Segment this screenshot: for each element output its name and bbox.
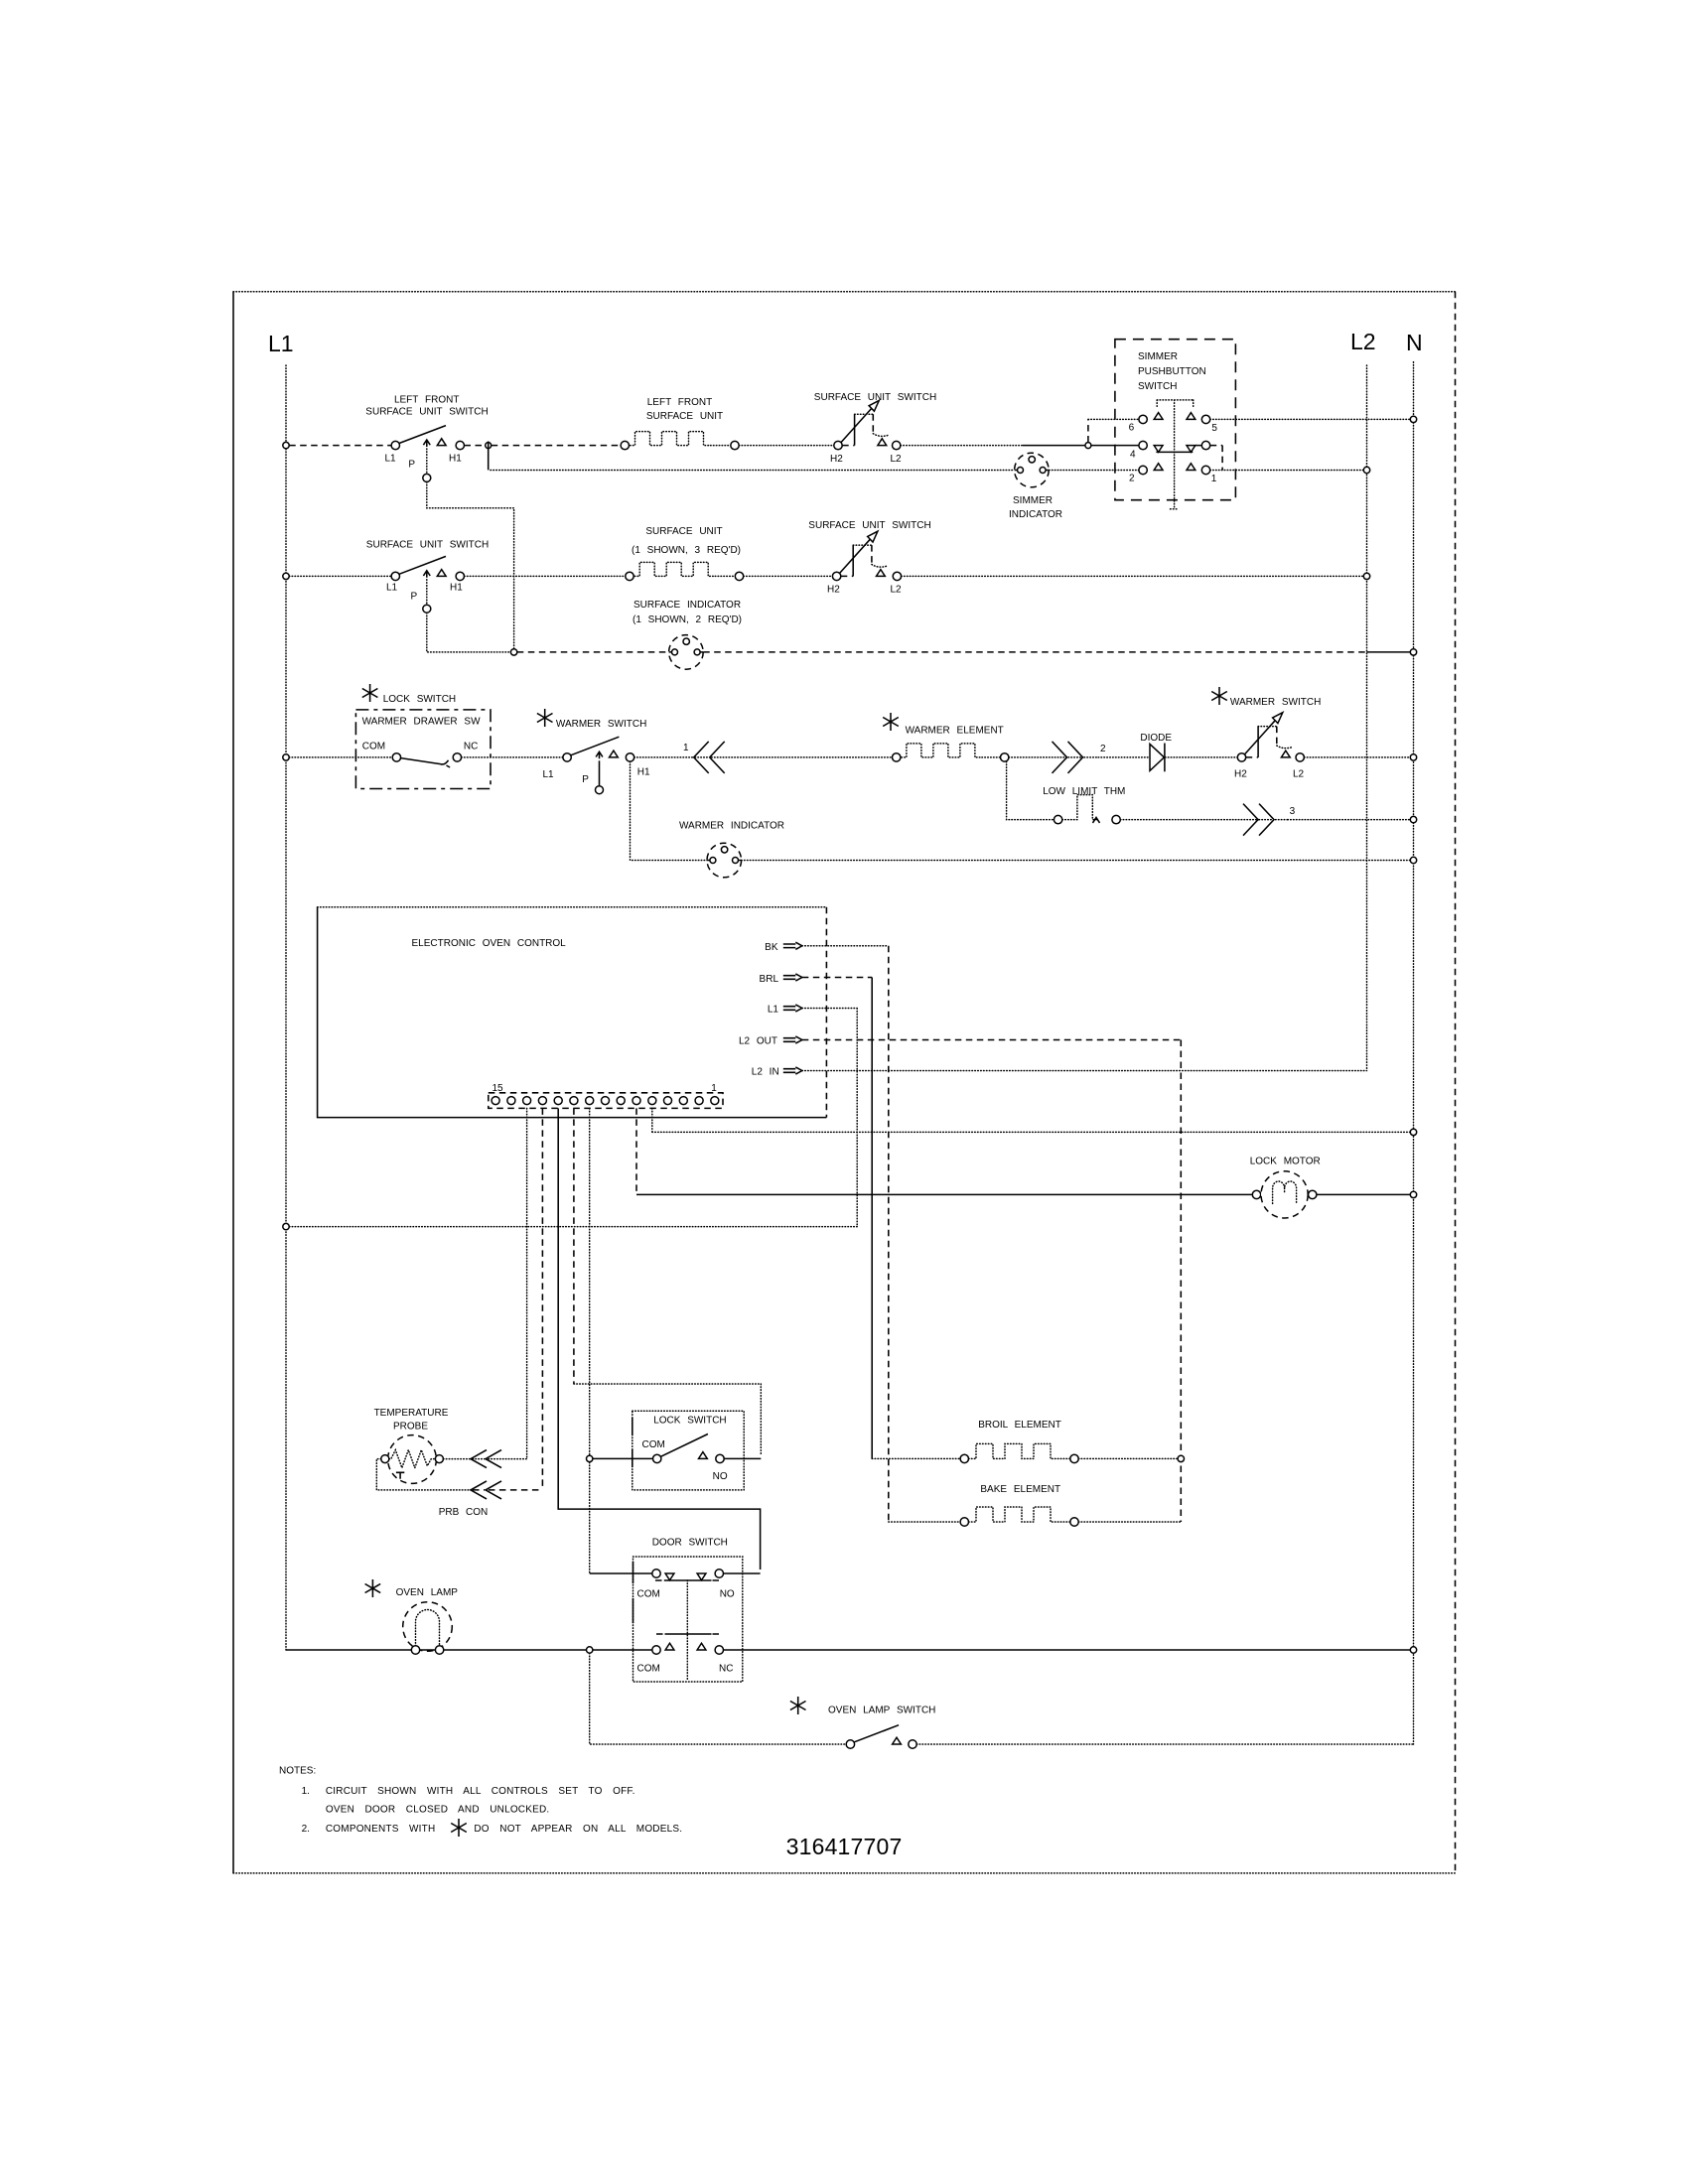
wire L2 to simmer pin 4	[901, 445, 1023, 447]
wire simmer indicator row (H1 junction to pin 2)	[491, 470, 1139, 472]
svg-text:L1: L1	[386, 583, 398, 594]
pin 1	[1187, 464, 1196, 471]
svg-text:1: 1	[683, 743, 689, 753]
svg-text:H2: H2	[1234, 769, 1247, 780]
wire H1 to element	[465, 575, 626, 577]
svg-text:WARMER SWITCH: WARMER SWITCH	[1230, 697, 1321, 708]
wire to chevron 3	[1120, 819, 1259, 821]
svg-text:BAKE ELEMENT: BAKE ELEMENT	[980, 1484, 1060, 1495]
svg-text:H1: H1	[450, 583, 463, 594]
svg-text:OVEN LAMP: OVEN LAMP	[396, 1587, 459, 1598]
svg-text:L2: L2	[891, 454, 903, 465]
svg-text:SURFACE UNIT: SURFACE UNIT	[646, 411, 723, 422]
junction to pin 6 branch	[1085, 443, 1091, 449]
svg-text:SURFACE INDICATOR: SURFACE INDICATOR	[633, 600, 741, 611]
switch simmer pushbutton switch box	[1115, 340, 1236, 500]
wire lamp to door switch	[420, 1649, 587, 1651]
svg-text:2: 2	[1129, 474, 1135, 484]
wire element to switch H2	[744, 575, 833, 577]
junction surface indicator row / N bus	[1410, 649, 1416, 655]
svg-text:L2 IN: L2 IN	[752, 1067, 779, 1078]
svg-text:LOW LIMIT THM: LOW LIMIT THM	[1043, 786, 1125, 797]
svg-text:BRL: BRL	[760, 974, 779, 985]
svg-text:3: 3	[1290, 806, 1296, 817]
wire probe to chevrons PRB CON	[443, 1458, 471, 1460]
wire L1 bus corner to oven lamp	[286, 1649, 411, 1651]
wire NC to warmer switch	[462, 756, 563, 758]
wire element to switch H2	[739, 445, 834, 447]
svg-text:SWITCH: SWITCH	[1138, 381, 1177, 392]
pushbutton plunger	[1157, 400, 1194, 509]
svg-text:NC: NC	[719, 1664, 733, 1675]
connector terminal strip (pins 15..1)	[489, 1093, 723, 1109]
svg-text:P: P	[582, 774, 589, 785]
svg-text:LOCK SWITCH: LOCK SWITCH	[653, 1416, 726, 1427]
svg-text:CIRCUIT SHOWN WITH ALL CONTROL: CIRCUIT SHOWN WITH ALL CONTROLS SET TO O…	[326, 1786, 635, 1797]
svg-text:1: 1	[1211, 474, 1217, 484]
svg-text:P: P	[411, 592, 418, 603]
wire L2 to N bus	[1304, 756, 1410, 758]
junction warmer indicator row / N bus	[1410, 857, 1416, 863]
pin 5	[1187, 413, 1196, 420]
wire pin12 to temperature probe return	[541, 1108, 543, 1490]
svg-text:TEMPERATURE: TEMPERATURE	[374, 1408, 449, 1419]
wire H1 to chevron connector 1	[634, 756, 694, 758]
wire motor to N bus	[1317, 1193, 1410, 1195]
svg-text:5: 5	[1211, 423, 1217, 434]
svg-text:WARMER ELEMENT: WARMER ELEMENT	[906, 726, 1004, 737]
svg-text:OVEN DOOR CLOSED AND UNLOCKED.: OVEN DOOR CLOSED AND UNLOCKED.	[326, 1805, 549, 1816]
svg-text:NO: NO	[720, 1589, 735, 1600]
svg-text:COMPONENTS WITH: COMPONENTS WITH	[326, 1824, 436, 1835]
wire lamp switch to N bus corner	[916, 1743, 1413, 1745]
svg-text:1.: 1.	[302, 1786, 310, 1797]
plunger link	[686, 1580, 688, 1681]
junction pin5 row / N bus	[1410, 416, 1416, 422]
svg-text:15: 15	[492, 1083, 503, 1094]
svg-text:4: 4	[1130, 450, 1136, 461]
junction row2/L1 bus	[283, 573, 289, 579]
upper contacts COM/NO	[590, 1572, 652, 1574]
wire pin11 to door switch NO	[558, 1108, 760, 1570]
svg-text:L2: L2	[891, 585, 903, 596]
resistor WARMER ELEMENT	[883, 713, 899, 731]
connector chevron 2	[1053, 742, 1083, 773]
wire indicator to N bus	[703, 651, 1366, 653]
svg-text:LEFT FRONT: LEFT FRONT	[647, 397, 712, 408]
wire L1 terminal to L1 bus	[289, 1009, 857, 1227]
svg-text:NOTES:: NOTES:	[279, 1766, 316, 1777]
svg-text:SURFACE UNIT: SURFACE UNIT	[645, 526, 722, 537]
wire row1 P-pivot chain down to surface indicator row	[427, 481, 514, 648]
wire L2 to L2 bus	[902, 575, 1364, 577]
junction row1/L1 bus	[283, 442, 289, 448]
lamp OVEN LAMP	[365, 1579, 381, 1597]
wire L1 bus to switch	[289, 575, 391, 577]
wire L1 bus to switch	[289, 445, 391, 447]
svg-text:COM: COM	[362, 742, 385, 752]
page border frame	[233, 292, 1456, 1873]
wire junction to element	[492, 445, 621, 447]
wire door NC to N bus	[724, 1649, 1411, 1651]
wire pin5 to N bus	[1210, 418, 1411, 420]
svg-text:316417707: 316417707	[786, 1834, 903, 1859]
svg-text:BK: BK	[765, 942, 778, 953]
svg-text:WARMER SWITCH: WARMER SWITCH	[556, 719, 646, 730]
junction broil row / L2 OUT drop	[1178, 1455, 1184, 1461]
wire diode to warmer switch H2	[1165, 756, 1237, 758]
svg-text:NO: NO	[713, 1471, 728, 1482]
junction low limit row / N bus	[1410, 816, 1416, 822]
pin H1	[456, 441, 464, 449]
wire pin1 to L2 bus	[1210, 470, 1364, 472]
wire warmer indicator branch	[631, 761, 708, 860]
wire L1 bus to warmer drawer switch	[289, 756, 392, 758]
svg-text:2: 2	[1100, 744, 1106, 754]
svg-text:SIMMER: SIMMER	[1013, 495, 1053, 506]
wire pin6 to lock motor	[635, 1108, 637, 1194]
svg-text:SURFACE UNIT SWITCH: SURFACE UNIT SWITCH	[814, 392, 936, 403]
svg-text:DO NOT APPEAR ON ALL MODELS.: DO NOT APPEAR ON ALL MODELS.	[474, 1824, 682, 1835]
wire element to chevron 2	[1009, 756, 1067, 758]
junction warmer row / L1 bus	[283, 754, 289, 760]
svg-text:L1: L1	[385, 454, 397, 465]
switch blade	[399, 426, 446, 444]
switch OVEN LAMP SWITCH	[790, 1697, 806, 1714]
svg-text:NC: NC	[464, 742, 478, 752]
svg-text:L1: L1	[768, 1005, 779, 1016]
wire N bus	[1413, 362, 1415, 1744]
svg-text:SURFACE UNIT SWITCH: SURFACE UNIT SWITCH	[366, 540, 489, 551]
switch LOCK SWITCH box	[633, 1411, 744, 1490]
svg-text:PRB CON: PRB CON	[439, 1507, 489, 1518]
svg-text:SIMMER: SIMMER	[1138, 351, 1178, 362]
moving bar upper	[664, 1579, 712, 1581]
wire H1 to junction	[465, 445, 486, 447]
svg-text:(1 SHOWN, 3 REQ'D): (1 SHOWN, 3 REQ'D)	[632, 545, 741, 556]
svg-text:COM: COM	[642, 1439, 665, 1450]
lower contacts COM/NC on oven lamp row	[652, 1646, 660, 1654]
svg-text:BROIL ELEMENT: BROIL ELEMENT	[978, 1420, 1061, 1431]
svg-text:H1: H1	[637, 767, 650, 778]
svg-text:DIODE: DIODE	[1140, 733, 1172, 744]
junction node with drop bar	[486, 443, 492, 449]
svg-text:L2 OUT: L2 OUT	[739, 1036, 777, 1047]
connector chevron 3	[1243, 804, 1274, 836]
pin (right middle)	[1201, 441, 1209, 449]
wire BRL to broil element	[802, 977, 872, 979]
wire junction to indicator	[517, 651, 669, 653]
svg-text:LOCK SWITCH: LOCK SWITCH	[383, 694, 456, 705]
junction row2 / L2 bus	[1363, 573, 1369, 579]
svg-text:H1: H1	[449, 454, 462, 465]
svg-text:DOOR SWITCH: DOOR SWITCH	[652, 1538, 728, 1549]
wire pin5 to N bus	[652, 1108, 1411, 1132]
junction lock motor row / N bus	[1410, 1191, 1416, 1197]
svg-text:L1: L1	[268, 331, 294, 356]
svg-text:INDICATOR: INDICATOR	[1009, 509, 1062, 520]
moving contact bar	[1156, 451, 1193, 453]
svg-text:(1 SHOWN, 2 REQ'D): (1 SHOWN, 2 REQ'D)	[633, 614, 742, 625]
lamp SIMMER INDICATOR	[1015, 453, 1050, 487]
junction surface indicator row	[510, 649, 516, 655]
pin 2	[1139, 466, 1147, 474]
wire probe left hook to lower chevron row	[376, 1459, 471, 1490]
fixed contact triangle	[437, 439, 446, 446]
wire L1 bus	[285, 365, 287, 1650]
op-amp U1 ELECTRONIC OVEN CONTROL box	[318, 906, 827, 908]
wire pin10 to lock switch NO	[573, 1108, 575, 1384]
wire row2 P-pivot down	[427, 613, 511, 652]
junction oven lamp row / N bus	[1410, 1647, 1416, 1653]
wire pin9 to door switch COM	[589, 1108, 591, 1573]
svg-text:2.: 2.	[302, 1824, 310, 1835]
junction oven lamp row / lamp switch branch	[587, 1647, 593, 1653]
svg-text:H2: H2	[827, 585, 840, 596]
svg-text:SURFACE UNIT SWITCH: SURFACE UNIT SWITCH	[808, 520, 930, 531]
wire low limit branch drop	[1007, 761, 1055, 820]
svg-text:1: 1	[711, 1083, 717, 1094]
junction pin1 row / L2 bus	[1363, 467, 1369, 473]
wire indicator to N bus	[742, 860, 1411, 862]
svg-text:COM: COM	[637, 1589, 660, 1600]
wire lamp switch branch down	[590, 1653, 847, 1744]
junction EOC L1 row / L1 bus	[283, 1223, 289, 1229]
svg-text:L2: L2	[1350, 329, 1376, 354]
svg-text:L1: L1	[543, 769, 555, 780]
svg-text:WARMER DRAWER SW: WARMER DRAWER SW	[362, 717, 481, 728]
wire L2 bus	[1366, 365, 1368, 1071]
pin P arrow	[423, 440, 430, 447]
svg-text:WARMER INDICATOR: WARMER INDICATOR	[679, 821, 784, 832]
pin 6	[1139, 415, 1147, 423]
svg-text:N: N	[1406, 330, 1423, 355]
switch WARMER SWITCH (L1/P/H1)	[537, 709, 553, 727]
svg-text:H2: H2	[830, 454, 843, 465]
junction pin5 row / N bus	[1410, 1129, 1416, 1135]
svg-text:LOCK MOTOR: LOCK MOTOR	[1250, 1157, 1321, 1167]
svg-text:SURFACE UNIT SWITCH: SURFACE UNIT SWITCH	[365, 407, 488, 418]
svg-text:ELECTRONIC OVEN CONTROL: ELECTRONIC OVEN CONTROL	[412, 938, 567, 949]
switch WARMER SWITCH (H2/L2 infinite)	[1211, 687, 1227, 705]
svg-text:LEFT FRONT: LEFT FRONT	[394, 395, 459, 406]
svg-text:P: P	[408, 460, 415, 471]
moving bar lower	[665, 1633, 712, 1635]
wire BK to bake element	[802, 945, 889, 947]
svg-text:PUSHBUTTON: PUSHBUTTON	[1138, 366, 1206, 377]
wire L2 OUT to elements	[802, 1040, 1182, 1523]
junction warmer row / N bus	[1410, 754, 1416, 760]
wire L2 IN to L2 bus	[802, 1070, 1367, 1072]
pin 4	[1139, 441, 1147, 449]
svg-text:6: 6	[1129, 423, 1135, 434]
svg-text:COM: COM	[637, 1664, 660, 1675]
svg-text:PROBE: PROBE	[393, 1422, 428, 1433]
switch WARMER DRAWER SW (lock switch)	[362, 684, 378, 702]
wire pin13 to temperature probe	[526, 1108, 528, 1458]
svg-text:OVEN LAMP SWITCH: OVEN LAMP SWITCH	[828, 1706, 935, 1716]
junction pin9 / lock switch COM	[587, 1455, 593, 1461]
svg-text:L2: L2	[1293, 769, 1305, 780]
